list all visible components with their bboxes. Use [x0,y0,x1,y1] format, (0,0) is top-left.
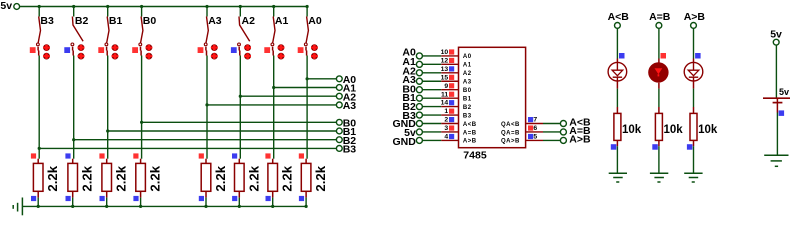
resistor R11 10k [690,107,718,146]
svg-text:QA>B: QA>B [501,139,520,145]
resistor R2 2.2k [68,159,95,198]
logic state square at switch B1 [98,47,104,53]
wire LED to resistor R11 [693,89,695,107]
svg-text:10k: 10k [698,124,718,136]
svg-text:9: 9 [444,83,448,90]
U1 pin 5 stub [526,139,543,141]
svg-text:A2: A2 [242,15,256,27]
wire to U1 pin 15 [422,80,441,82]
logic state square U1 pin 13 [449,66,454,71]
svg-text:5: 5 [533,134,537,141]
U1 pin 3 stub [441,131,458,133]
wire bus tap A3 to terminal [207,104,336,106]
U1 pin 7 stub [526,123,543,125]
wire resistor R5 to ground bus [205,198,207,207]
terminal A2 [336,91,356,103]
wire bus tap B2 to terminal [74,139,337,141]
U1 pin 12 stub [441,63,458,65]
terminal B1 (U1 pin 11) [402,92,422,104]
logic state square at switch A1 [264,47,270,53]
battery BAT1 5v [763,87,790,112]
switch B3 [37,15,54,60]
svg-text:6: 6 [533,125,537,132]
svg-text:10k: 10k [622,124,642,136]
junction A1 tap [272,86,275,89]
svg-text:A3: A3 [343,100,357,112]
svg-text:A2: A2 [463,71,472,77]
logic state square below resistor R1 [31,196,36,201]
logic state square at switch B2 [64,47,70,53]
junction A2 rail [239,5,242,8]
U1 pin 10 stub [441,55,458,57]
svg-text:A=B: A=B [463,130,477,136]
junction R5 ground bus [204,205,207,208]
junction B2 tap [72,138,75,141]
wire to U1 pin 12 [422,63,441,65]
logic state square above LED A<B [619,53,625,59]
terminal 5v (U1 pin 3) [404,127,422,139]
U1 pin 1 stub [441,114,458,116]
wire resistor R6 to ground bus [238,198,240,207]
logic state square above resistor R1 [31,153,36,158]
wire 5v rail [20,6,308,8]
pin number 5 [533,134,537,141]
junction R4 ground bus [139,205,142,208]
junction A1 rail [272,5,275,8]
svg-text:2.2k: 2.2k [313,165,328,191]
logic state square U1 pin 10 [449,49,454,54]
svg-text:A>B: A>B [463,139,477,145]
logic state square below resistor R10 [652,144,658,150]
logic state square above resistor R4 [133,153,138,158]
ground (LED column A=B) [650,173,668,182]
junction A3 tap [205,103,208,106]
logic state square below resistor R2 [66,196,71,201]
terminal A0 [336,74,356,86]
junction R3 ground bus [105,205,108,208]
terminal A<B [560,117,591,129]
logic state square below resistor R6 [232,196,237,201]
pin number 12 [441,57,449,64]
LED D3 (A>B) [684,59,703,89]
pin number 7 [533,117,537,124]
wire ground bus (bottom) [22,205,307,207]
logic state square U1 pin 6 [528,125,533,130]
svg-text:13: 13 [441,66,449,73]
terminal B2 (U1 pin 14) [402,101,422,113]
logic state square U1 pin 7 [528,117,533,122]
logic state square U1 pin 5 [528,134,533,139]
junction R7 ground bus [271,205,274,208]
switch B1 [105,15,122,60]
terminal B2 [336,135,356,147]
logic state square U1 pin 9 [449,83,454,88]
logic state square at switch A2 [231,47,237,53]
wire resistor R4 to ground bus [140,198,142,207]
U1 pin 14 stub [441,106,458,108]
resistor R9 10k [614,107,642,146]
svg-text:7485: 7485 [463,150,487,162]
junction A2 tap [239,95,242,98]
wire to U1 pin 4 [422,139,441,141]
wire bus tap B0 to terminal [142,121,337,123]
resistor R5 2.2k [201,159,228,198]
logic state square U1 pin 14 [449,100,454,105]
junction B0 tap [140,121,143,124]
wire switch B1 down to resistor [107,56,109,159]
wire bus tap B1 to terminal [108,130,337,132]
resistor R4 2.2k [136,159,163,198]
svg-text:10k: 10k [664,124,684,136]
terminal B1 [336,126,356,138]
junction R2 ground bus [71,205,74,208]
svg-text:2.2k: 2.2k [280,165,295,191]
wire switch B2 down to resistor [73,56,75,159]
wire resistor R1 to ground bus [37,198,39,207]
svg-text:A0: A0 [463,54,472,60]
wire resistor R8 to ground bus [305,198,307,207]
resistor R6 2.2k [235,159,262,198]
power terminal 5v (top-left) [0,0,19,12]
logic state square at switch A3 [198,47,204,53]
wire resistor R3 to ground bus [106,198,108,207]
svg-text:11: 11 [441,91,448,98]
wire to U1 pin 14 [422,106,441,108]
pin number 4 [444,134,448,141]
pin number 11 [441,91,448,98]
wire to U1 pin 9 [422,89,441,91]
junction R1 ground bus [37,205,40,208]
wire LED to resistor R9 [616,89,618,107]
junction A0 rail [306,5,309,8]
wire bus tap A0 to terminal [307,78,336,80]
terminal B3 (U1 pin 1) [402,110,422,122]
U1 pin 11 stub [441,97,458,99]
pin number 9 [444,83,448,90]
logic state square above LED A=B [661,53,667,59]
wire bus tap A1 to terminal [274,87,337,89]
wire to U1 pin 3 [422,131,441,133]
junction R6 ground bus [238,205,241,208]
wire switch B3 down to resistor [38,56,40,159]
wire 5v rail drop to switch B1 [107,7,109,17]
wire to U1 pin 11 [422,97,441,99]
logic state square below resistor R9 [611,144,617,150]
wire U1 pin 6 to terminal A=B [543,131,560,133]
wire 5v rail drop to switch A1 [273,7,275,17]
logic state square U1 pin 4 [449,134,454,139]
logic state square at switch B0 [132,47,138,53]
pin number 1 [444,108,448,115]
svg-text:A3: A3 [463,80,472,86]
op IC U1 7485 body [459,47,526,161]
resistor R3 2.2k [102,159,129,198]
logic state square below resistor R5 [199,196,204,201]
wire 5v rail drop to switch A2 [239,7,241,17]
svg-text:B0: B0 [463,88,472,94]
wire U1 pin 7 to terminal A<B [543,123,560,125]
terminal A2 (U1 pin 13) [402,65,422,77]
svg-text:B0: B0 [143,15,157,27]
wire 5v rail drop to switch A3 [206,7,208,17]
terminal A=B [560,125,591,137]
wire terminal A<B to LED [616,28,618,58]
switch A2 [238,15,255,60]
logic state square below resistor R4 [133,196,138,201]
logic state square above resistor R6 [232,153,237,158]
U1 pin 13 stub [441,72,458,74]
pin number 15 [441,74,449,81]
wire bus tap B3 to terminal [39,147,336,149]
terminal B0 (U1 pin 9) [402,83,422,95]
wire to U1 pin 2 [422,123,441,125]
junction A0 tap [306,77,309,80]
ground (left, rotated) [13,198,22,216]
logic state square U1 pin 2 [449,117,454,122]
terminal A1 (U1 pin 12) [402,56,422,68]
logic state square at switch B3 [30,47,36,53]
switch A1 [271,15,288,60]
resistor R7 2.2k [268,159,295,198]
svg-text:B3: B3 [343,144,357,156]
pin number 10 [441,49,449,56]
svg-text:2.2k: 2.2k [148,165,163,191]
logic state square U1 pin 3 [449,125,454,130]
wire switch A0 down to resistor [306,56,308,159]
svg-text:5v: 5v [0,0,12,12]
pin number 13 [441,66,449,73]
logic state square above resistor R2 [65,153,70,158]
svg-text:2.2k: 2.2k [246,165,261,191]
terminal A=B (LED column) [649,11,671,28]
svg-text:QA<B: QA<B [501,122,520,128]
terminal GND (U1 pin 4) [392,136,422,148]
junction B0 rail [140,5,143,8]
U1 pin 6 stub [526,131,543,133]
svg-text:15: 15 [441,74,449,81]
wire switch A1 down to resistor [273,56,275,159]
ground (LED column A>B) [684,173,702,182]
terminal A3 [336,100,356,112]
wire battery to ground [776,113,778,156]
resistor R1 2.2k [33,159,60,198]
wire resistor R10 to ground [658,146,660,173]
svg-text:3: 3 [444,125,448,132]
wire resistor R7 to ground bus [272,198,274,207]
logic state square above resistor R8 [299,153,304,158]
svg-text:4: 4 [444,134,448,141]
svg-text:14: 14 [441,100,449,107]
logic state square below resistor R8 [299,196,304,201]
terminal A3 (U1 pin 15) [402,74,422,86]
wire resistor R11 to ground [693,146,695,173]
svg-text:A0: A0 [308,15,322,27]
wire resistor R9 to ground [616,146,618,173]
wire switch A3 down to resistor [206,56,208,159]
resistor R10 10k [655,107,683,146]
svg-text:A>B: A>B [569,134,591,146]
svg-text:A3: A3 [208,15,222,27]
wire terminal A>B to LED [693,28,695,58]
logic state square below resistor R3 [100,196,105,201]
wire 5v rail drop to switch B0 [141,7,143,17]
logic state square above resistor R7 [265,153,270,158]
wire switch B0 down to resistor [141,56,143,159]
svg-text:1: 1 [444,108,448,115]
svg-text:2.2k: 2.2k [80,165,95,191]
svg-text:B2: B2 [463,105,472,111]
wire 5v rail drop to switch A0 [306,7,308,17]
wire 5v rail drop to switch B2 [73,7,75,17]
terminal B3 [336,144,356,156]
wire 5v rail drop to switch B3 [38,7,40,17]
svg-text:10: 10 [441,49,449,56]
terminal B0 [336,117,356,129]
terminal A1 [336,83,356,95]
U1 pin 2 stub [441,123,458,125]
terminal A>B (LED column) [684,11,706,28]
wire switch A2 down to resistor [239,56,241,159]
logic state square U1 pin 11 [449,92,454,97]
svg-text:12: 12 [441,57,449,64]
logic state square above LED A>B [695,53,701,59]
svg-text:7: 7 [533,117,537,124]
svg-text:A>B: A>B [684,11,706,23]
switch A0 [304,15,321,60]
svg-text:A1: A1 [275,15,289,27]
junction B1 tap [106,129,109,132]
svg-text:B3: B3 [463,113,472,119]
terminal A0 (U1 pin 10) [402,47,422,59]
svg-text:B1: B1 [109,15,123,27]
junction A3 rail [205,5,208,8]
logic state square U1 pin 1 [449,109,454,114]
svg-text:A<B: A<B [608,11,630,23]
svg-text:2.2k: 2.2k [114,165,129,191]
wire to U1 pin 13 [422,72,441,74]
svg-text:QA=B: QA=B [501,130,520,136]
terminal GND (U1 pin 2) [392,118,422,130]
junction B3 tap [38,147,41,150]
wire to U1 pin 10 [422,55,441,57]
svg-text:A=B: A=B [649,11,671,23]
svg-text:B3: B3 [40,15,54,27]
logic state square below resistor R11 [687,144,693,150]
terminal A<B (LED column) [608,11,630,28]
wire to U1 pin 1 [422,114,441,116]
svg-text:A1: A1 [463,63,472,69]
logic state square above resistor R5 [199,153,204,158]
junction B3 rail [38,5,41,8]
U1 pin 15 stub [441,80,458,82]
pin number 6 [533,125,537,132]
U1 pin 4 stub [441,139,458,141]
junction B1 rail [106,5,109,8]
LED D1 (A<B) [608,59,627,89]
terminal A>B [560,134,591,146]
svg-text:A<B: A<B [463,122,477,128]
svg-text:GND: GND [392,136,416,148]
svg-text:B2: B2 [75,15,89,27]
wire resistor R2 to ground bus [72,198,74,207]
logic state square above resistor R3 [99,153,104,158]
pin number 2 [444,117,448,124]
svg-text:2.2k: 2.2k [213,165,228,191]
ground (LED column A<B) [609,173,627,182]
wire LED to resistor R10 [658,89,660,107]
logic state square below battery [779,110,785,116]
junction R8 ground bus [305,205,308,208]
switch B0 [139,15,156,60]
logic state square U1 pin 15 [449,75,454,80]
svg-text:2: 2 [444,117,448,124]
logic state square U1 pin 12 [449,58,454,63]
logic state square at switch A0 [298,47,304,53]
logic state square below resistor R7 [266,196,271,201]
svg-text:5v: 5v [779,87,789,97]
wire 5v terminal to battery [775,45,777,97]
ground (right column) [764,155,788,166]
svg-text:2.2k: 2.2k [45,165,60,191]
U1 pin 9 stub [441,89,458,91]
switch A3 [204,15,221,60]
resistor R8 2.2k [301,159,328,198]
LED D2 (A=B) [648,59,668,89]
wire bus tap A2 to terminal [240,95,336,97]
power terminal 5v (right) [770,28,782,45]
svg-text:B1: B1 [463,96,472,102]
pin number 14 [441,100,449,107]
junction B2 rail [72,5,75,8]
pin number 3 [444,125,448,132]
switch B2 [71,15,88,60]
wire terminal A=B to LED [658,28,660,58]
wire U1 pin 5 to terminal A>B [543,139,560,141]
svg-text:5v: 5v [770,28,782,40]
